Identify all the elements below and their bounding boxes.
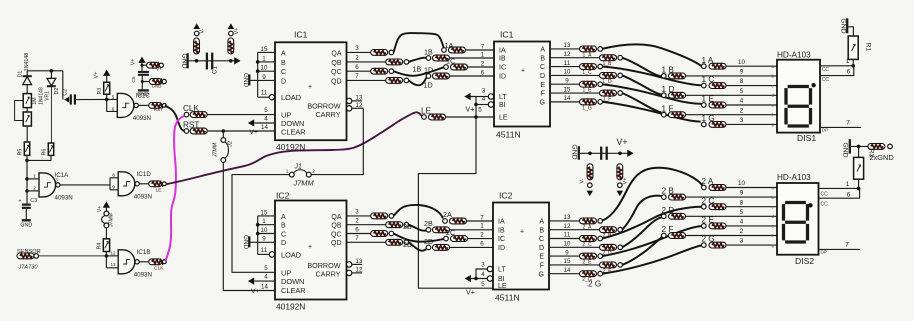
jumper J3 J7MM — [104, 211, 109, 216]
jumper J1 J7MM — [289, 172, 294, 177]
wire — [468, 66, 495, 68]
svg-text:GND: GND — [137, 92, 149, 98]
connector RST out — [149, 103, 162, 109]
svg-text:D: D — [281, 78, 286, 85]
svg-text:GND: GND — [841, 142, 848, 157]
wire pin 10 — [549, 246, 600, 248]
wire 2_C — [602, 207, 702, 239]
wire — [467, 220, 494, 222]
connector 1_C — [580, 64, 597, 70]
wire — [726, 206, 777, 208]
power V+ arrow LT/BI — [465, 275, 471, 282]
wire pin 11 — [258, 253, 270, 255]
svg-text:V+: V+ — [156, 67, 162, 72]
svg-text:J7MM: J7MM — [213, 142, 219, 158]
svg-text:IC: IC — [498, 236, 505, 243]
wire 1_C — [602, 67, 702, 86]
wire J2 to CLEAR2 — [223, 162, 275, 290]
svg-text:1: 1 — [846, 181, 850, 188]
wire — [450, 57, 495, 59]
svg-text:15: 15 — [564, 258, 571, 265]
display DIS1 HD-A103 box — [777, 60, 820, 133]
svg-text:IC1D: IC1D — [137, 171, 152, 178]
svg-text:6: 6 — [481, 69, 485, 76]
svg-text:CLK: CLK — [154, 265, 164, 271]
wire — [726, 85, 777, 87]
op-amp gate IC1C 4093N — [117, 93, 134, 117]
svg-text:13: 13 — [356, 94, 363, 101]
svg-text:IB: IB — [499, 56, 506, 63]
pin 12 CARRY bubble — [347, 106, 352, 111]
svg-text:GND: GND — [570, 144, 577, 159]
wire 1_D — [622, 75, 661, 94]
svg-text:GND: GND — [839, 18, 846, 33]
svg-text:C: C — [281, 69, 286, 76]
capacitor C2 — [70, 94, 72, 104]
node — [256, 232, 260, 236]
svg-text:10: 10 — [738, 180, 745, 187]
wire pin 15 — [258, 51, 275, 53]
svg-text:9: 9 — [262, 236, 266, 243]
connector 2_B — [600, 227, 617, 233]
svg-text:R1: R1 — [865, 43, 872, 52]
wire tie — [105, 256, 107, 268]
wire pin 6 — [347, 233, 371, 235]
svg-text:G: G — [540, 99, 545, 106]
svg-text:12: 12 — [356, 102, 363, 109]
wire pin 11 — [549, 238, 580, 240]
jumper J2 J7MM — [221, 138, 226, 143]
svg-text:D2: D2 — [54, 88, 60, 95]
wire 2_A — [602, 168, 703, 221]
wire QB-2B — [409, 225, 427, 231]
svg-text:GND: GND — [242, 235, 249, 250]
wire pin 13 — [549, 220, 580, 222]
svg-text:15: 15 — [261, 209, 268, 216]
node — [105, 254, 109, 258]
wire — [26, 108, 28, 112]
svg-text:C: C — [281, 231, 286, 238]
svg-text:12: 12 — [356, 266, 363, 273]
svg-text:R5: R5 — [17, 149, 23, 156]
svg-text:LOAD: LOAD — [281, 93, 301, 102]
op-amp gate IC1A 4093N — [39, 173, 56, 197]
svg-text:F: F — [540, 263, 544, 270]
svg-text:6: 6 — [480, 240, 484, 247]
svg-text:IA: IA — [499, 48, 506, 55]
svg-text:8: 8 — [112, 173, 115, 178]
wire 1_E — [602, 84, 702, 104]
wire pin 14 — [550, 101, 580, 103]
svg-text:LE: LE — [156, 187, 162, 193]
pin BI bubble — [487, 276, 492, 281]
svg-text:GND: GND — [152, 84, 162, 89]
svg-text:1: 1 — [33, 174, 36, 179]
display DIS2 HD-A103 box — [777, 183, 819, 255]
wire — [62, 71, 64, 100]
IC U2 4511N box — [494, 42, 550, 127]
svg-text:2: 2 — [740, 228, 744, 235]
connector 1_E — [580, 81, 597, 87]
resistor R1 — [848, 36, 858, 59]
svg-text:R6: R6 — [42, 149, 48, 156]
svg-text:2A: 2A — [443, 210, 452, 219]
connector 1_D — [600, 72, 617, 78]
node — [141, 64, 144, 67]
svg-text:2B: 2B — [424, 219, 433, 228]
connector V+ — [228, 38, 234, 54]
svg-text:CARRY: CARRY — [315, 110, 340, 119]
svg-text:2: 2 — [355, 55, 359, 62]
svg-text:7: 7 — [845, 241, 849, 248]
wire — [106, 255, 118, 257]
pin LT bubble — [488, 94, 493, 99]
svg-text:2B: 2B — [403, 222, 412, 231]
wire pin1 — [819, 187, 859, 189]
svg-text:IC1: IC1 — [294, 30, 308, 40]
wire — [450, 246, 494, 248]
connector Q26 — [371, 231, 388, 237]
svg-text:5: 5 — [740, 88, 744, 95]
svg-text:LOAD: LOAD — [281, 250, 301, 259]
wire — [726, 225, 777, 227]
wire — [858, 179, 860, 188]
svg-text:V-: V- — [200, 28, 206, 33]
svg-text:3: 3 — [740, 117, 744, 124]
pin 13 BORROW bubble — [347, 98, 352, 103]
svg-text:2: 2 — [355, 218, 359, 225]
wire A tie — [257, 216, 259, 255]
wire pin 10 — [258, 233, 275, 235]
svg-text:8: 8 — [740, 199, 744, 206]
svg-text:V+: V+ — [250, 129, 259, 136]
node — [105, 98, 109, 102]
wire — [139, 261, 149, 263]
wire IC1A out — [60, 184, 110, 186]
svg-text:13: 13 — [564, 214, 571, 221]
node — [229, 59, 233, 63]
svg-text:QD: QD — [331, 240, 342, 247]
wire LE net down — [418, 117, 493, 288]
wire QA-2A — [394, 205, 443, 218]
svg-text:G: G — [539, 271, 544, 278]
node — [222, 129, 226, 133]
node — [25, 189, 29, 193]
svg-text:RST: RST — [154, 107, 163, 112]
wire pin6 — [820, 66, 854, 76]
svg-text:LE: LE — [499, 115, 508, 122]
wire pin 12 — [549, 229, 600, 231]
svg-text:+: + — [19, 199, 22, 205]
svg-text:A: A — [539, 219, 544, 226]
connector LE out — [149, 181, 162, 187]
svg-text:1: 1 — [262, 218, 266, 225]
connector 2_F — [600, 262, 617, 268]
connector 2_D — [600, 244, 617, 250]
svg-text:9: 9 — [565, 249, 569, 256]
svg-text:10: 10 — [261, 65, 268, 72]
svg-text:7: 7 — [480, 214, 484, 221]
svg-text:14: 14 — [261, 124, 268, 131]
svg-text:4093N: 4093N — [133, 115, 151, 122]
svg-text:2: 2 — [481, 60, 485, 67]
svg-text:B: B — [281, 223, 286, 230]
svg-text:CLEAR: CLEAR — [281, 128, 306, 137]
svg-text:10: 10 — [564, 69, 571, 76]
svg-text:4511N: 4511N — [495, 293, 520, 303]
svg-text:B: B — [540, 55, 545, 62]
svg-text:14: 14 — [564, 267, 571, 274]
svg-text:4: 4 — [481, 271, 485, 278]
svg-text:2 G: 2 G — [588, 280, 601, 289]
wire pin 15 — [549, 264, 600, 266]
node — [256, 69, 260, 73]
wire 1_B — [622, 58, 661, 77]
svg-text:+: + — [308, 84, 312, 91]
wire QC-2C — [394, 234, 444, 242]
svg-text:V+: V+ — [623, 178, 629, 185]
wire pin 9 — [549, 255, 580, 257]
wire pin7 — [820, 126, 861, 128]
svg-text:J1: J1 — [294, 163, 303, 170]
wire VR1 wiper bracket — [15, 101, 24, 121]
svg-text:3: 3 — [740, 238, 744, 245]
svg-text:IA: IA — [498, 219, 505, 226]
svg-text:15: 15 — [564, 86, 571, 93]
svg-text:2: 2 — [33, 186, 36, 191]
svg-text:13: 13 — [110, 262, 116, 267]
wire RST black curve — [165, 106, 185, 131]
wire — [106, 267, 118, 269]
wire — [142, 64, 147, 66]
svg-text:9: 9 — [740, 190, 744, 197]
svg-text:9: 9 — [740, 69, 744, 76]
wire — [726, 65, 777, 67]
svg-text:LE: LE — [498, 283, 507, 290]
power V+ arrow LT/BI — [464, 93, 470, 100]
svg-text:IB: IB — [498, 227, 505, 234]
potentiometer VR1 lower half — [23, 112, 31, 126]
svg-text:QA: QA — [331, 50, 341, 57]
wire pin6 — [819, 188, 860, 198]
wire — [110, 177, 118, 179]
svg-text:C5: C5 — [131, 76, 137, 82]
IC U3 40192N box — [275, 201, 347, 300]
svg-text:5: 5 — [264, 265, 268, 272]
svg-text:6: 6 — [847, 191, 851, 198]
svg-text:1: 1 — [481, 51, 485, 58]
wire input node — [26, 155, 28, 191]
connector 1_B — [600, 55, 617, 61]
wire — [139, 104, 149, 106]
svg-text:4: 4 — [740, 219, 744, 226]
pin 11 bubble — [269, 95, 274, 100]
diode D2 — [47, 78, 56, 85]
svg-text:DIS2: DIS2 — [795, 256, 814, 266]
wire pin 13 — [550, 48, 580, 50]
svg-text:12: 12 — [564, 51, 571, 58]
wire pin 9 — [258, 241, 275, 243]
svg-text:VR1: VR1 — [44, 91, 50, 101]
wire — [468, 238, 494, 240]
svg-text:ID: ID — [498, 245, 505, 252]
connector Q23 — [371, 213, 388, 219]
wire — [139, 183, 149, 185]
connector V- — [587, 164, 593, 180]
svg-text:CC: CC — [821, 201, 829, 207]
pin BI bubble — [488, 102, 493, 107]
wire 2_E — [602, 226, 702, 256]
pin 11 bubble — [269, 252, 274, 257]
wire pin 10 — [550, 74, 600, 76]
svg-text:QB: QB — [331, 60, 341, 67]
wire — [76, 98, 117, 100]
svg-text:QA: QA — [331, 214, 341, 221]
svg-text:CC: CC — [822, 67, 830, 73]
svg-text:9: 9 — [112, 185, 115, 190]
svg-text:V-: V- — [579, 178, 585, 183]
pin 12 CARRY bubble — [347, 270, 352, 275]
svg-text:GND: GND — [242, 73, 249, 88]
svg-text:4: 4 — [264, 274, 268, 281]
connector 1_A — [580, 46, 597, 52]
node — [256, 60, 260, 64]
svg-text:QB: QB — [331, 223, 341, 230]
svg-text:V+: V+ — [234, 28, 240, 35]
wire 2_F — [622, 236, 662, 265]
svg-text:4: 4 — [264, 116, 268, 123]
connector GND — [149, 79, 162, 85]
wire 2_B — [622, 196, 662, 230]
capacitor C4 — [600, 147, 602, 160]
svg-text:7: 7 — [846, 120, 850, 127]
svg-text:J7A730: J7A730 — [18, 265, 39, 271]
node — [474, 115, 478, 119]
svg-text:6: 6 — [355, 226, 359, 233]
wire pin 7 — [347, 79, 386, 81]
svg-text:R4: R4 — [96, 243, 102, 250]
svg-text:5: 5 — [112, 94, 115, 99]
connector 2_E — [580, 253, 597, 259]
svg-text:IC1: IC1 — [500, 30, 514, 40]
connector 2_C — [580, 236, 597, 242]
wire CARRY to J1 — [311, 108, 363, 174]
wire — [686, 196, 778, 198]
svg-text:HD-A103: HD-A103 — [777, 173, 811, 182]
resistor R5 — [24, 142, 29, 155]
svg-text:J7MM: J7MM — [293, 178, 315, 187]
wire — [726, 104, 777, 106]
connector V- — [194, 38, 200, 54]
svg-text:11: 11 — [261, 247, 268, 254]
diode D1 — [23, 75, 32, 77]
svg-text:1B: 1B — [413, 65, 422, 74]
wire — [106, 94, 108, 99]
connector Q27 — [386, 239, 403, 245]
wire — [686, 94, 778, 96]
svg-text:D: D — [281, 240, 286, 247]
node — [25, 159, 29, 163]
wire — [50, 71, 52, 79]
capacitor C3 — [22, 204, 31, 206]
svg-text:QC: QC — [331, 231, 342, 238]
svg-text:1M: 1M — [32, 97, 38, 104]
svg-text:IC2: IC2 — [276, 190, 290, 200]
node — [588, 152, 592, 156]
IC U4 4511N box — [493, 203, 549, 290]
capacitor C5 — [138, 71, 149, 73]
connector V+ — [617, 164, 623, 180]
svg-text:5: 5 — [264, 107, 268, 114]
svg-text:B: B — [281, 60, 286, 67]
svg-text:3: 3 — [355, 45, 359, 52]
resistor R6 — [48, 143, 53, 155]
connector Q7 — [386, 78, 403, 84]
wire — [110, 189, 118, 191]
wire pin 15 — [550, 92, 600, 94]
wire — [26, 126, 28, 142]
wire pin 3 — [347, 51, 371, 53]
svg-text:DIS1: DIS1 — [797, 133, 816, 143]
connector 1_G — [580, 99, 597, 105]
svg-text:7: 7 — [355, 73, 359, 80]
svg-text:CC: CC — [821, 192, 829, 198]
wire pin1 — [820, 65, 853, 67]
svg-text:8: 8 — [740, 78, 744, 85]
power V+ arrow — [103, 201, 110, 207]
wire — [106, 76, 108, 82]
connector Q22 — [386, 222, 403, 228]
wire pin 6 — [347, 70, 371, 72]
svg-text:4093N: 4093N — [134, 271, 152, 278]
wire pin 1 — [258, 61, 275, 63]
wire top rail — [27, 70, 63, 72]
potentiometer VR1 upper half — [23, 94, 31, 108]
wire pin 7 — [347, 241, 386, 243]
svg-text:3: 3 — [481, 262, 485, 269]
svg-text:13: 13 — [356, 258, 363, 265]
svg-text:2: 2 — [740, 107, 744, 114]
svg-text:+: + — [520, 229, 524, 236]
pin LT bubble — [487, 266, 492, 271]
wire J1 to UP2 — [232, 175, 289, 273]
wire sensor — [39, 255, 107, 257]
wire QA-1A — [394, 33, 444, 52]
wire 1_A — [602, 44, 702, 66]
wire — [726, 187, 777, 189]
wire — [726, 123, 777, 125]
svg-text:1N4148: 1N4148 — [24, 53, 30, 71]
svg-text:2xGND: 2xGND — [870, 153, 894, 162]
wire A tie — [257, 52, 259, 97]
wire — [27, 190, 39, 192]
svg-text:1: 1 — [262, 55, 266, 62]
svg-text:E: E — [539, 254, 544, 261]
resistor R3 — [854, 157, 864, 179]
wire pin 11 — [550, 66, 580, 68]
svg-text:3: 3 — [355, 209, 359, 216]
connector Q3 — [371, 50, 388, 56]
svg-text:5: 5 — [740, 209, 744, 216]
svg-text:V+: V+ — [97, 206, 103, 213]
connector 2xGND — [868, 144, 885, 150]
wire — [141, 75, 143, 90]
svg-text:D: D — [540, 73, 545, 80]
wire pin 11 — [258, 96, 270, 98]
svg-text:11: 11 — [564, 232, 571, 239]
svg-text:DP: DP — [822, 128, 828, 133]
wire pin 9 — [550, 83, 580, 85]
